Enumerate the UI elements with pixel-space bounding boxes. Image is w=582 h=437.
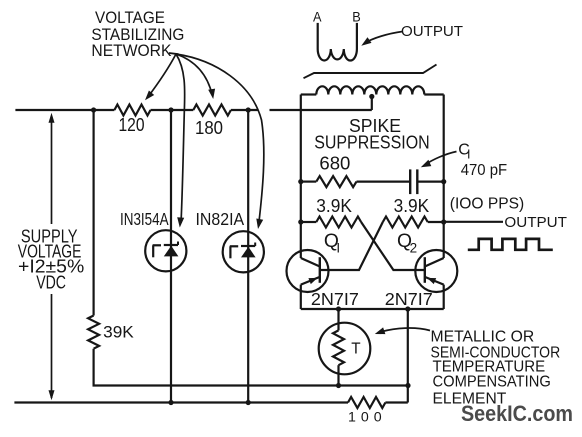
svg-text:SUPPRESSION: SUPPRESSION xyxy=(314,133,430,153)
svg-text:A: A xyxy=(313,9,322,25)
svg-text:120: 120 xyxy=(119,114,145,135)
svg-text:COMPENSATING: COMPENSATING xyxy=(433,373,551,391)
svg-text:2N7I7: 2N7I7 xyxy=(385,289,433,309)
svg-text:OUTPUT: OUTPUT xyxy=(504,214,567,231)
svg-text:3.9K: 3.9K xyxy=(394,196,430,216)
svg-text:680: 680 xyxy=(319,154,350,174)
svg-text:(IOO PPS): (IOO PPS) xyxy=(450,195,524,212)
svg-text:180: 180 xyxy=(195,117,223,138)
svg-text:B: B xyxy=(352,9,361,25)
svg-text:VOLTAGE: VOLTAGE xyxy=(95,9,165,27)
svg-text:39K: 39K xyxy=(103,322,134,341)
svg-text:2N7I7: 2N7I7 xyxy=(311,289,359,309)
svg-text:IN3I54A: IN3I54A xyxy=(120,209,169,229)
svg-text:VDC: VDC xyxy=(36,272,66,292)
svg-text:NETWORK: NETWORK xyxy=(91,42,171,60)
svg-text:3.9K: 3.9K xyxy=(316,196,352,216)
svg-text:T: T xyxy=(351,340,360,357)
svg-text:2: 2 xyxy=(410,241,418,256)
svg-text:I: I xyxy=(467,148,470,162)
svg-text:SeekIC.com: SeekIC.com xyxy=(461,401,573,426)
svg-text:OUTPUT: OUTPUT xyxy=(401,24,463,40)
svg-text:IN82IA: IN82IA xyxy=(196,209,245,229)
svg-text:STABILIZING: STABILIZING xyxy=(91,26,184,44)
svg-text:100: 100 xyxy=(348,409,382,425)
svg-text:I: I xyxy=(336,241,340,256)
svg-text:470 pF: 470 pF xyxy=(461,162,508,179)
